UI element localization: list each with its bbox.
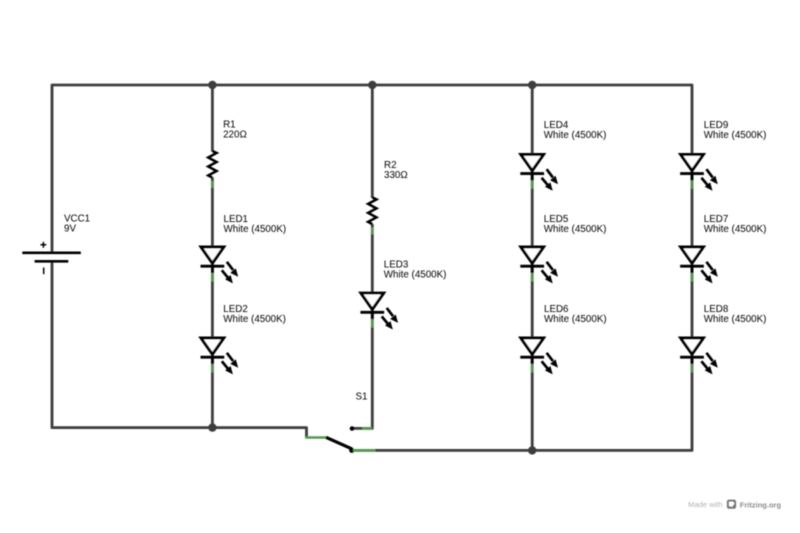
switch S1 throw terminal dot	[350, 426, 355, 431]
logo Fritzing	[727, 500, 736, 509]
LED LED5 White (4500K)	[520, 247, 558, 283]
resistor R2	[368, 197, 376, 234]
svg-text:White (4500K): White (4500K)	[704, 314, 767, 325]
LED LED3 White (4500K)	[360, 293, 398, 329]
switch S1 lever	[326, 437, 352, 449]
switch S1 common terminal dot	[349, 448, 354, 453]
switch S1 left pin (green)	[305, 436, 326, 439]
battery VCC1 9V	[22, 242, 81, 274]
wire branch 1 upper segment (top rail to R1)	[211, 85, 214, 152]
svg-text:White (4500K): White (4500K)	[223, 314, 286, 325]
switch S1 right pin (green)	[353, 449, 375, 452]
wire branch 3 (top rail through LED4 LED5 LED6 to bottom-right rail)	[531, 85, 534, 450]
svg-text:White (4500K): White (4500K)	[704, 130, 767, 141]
node junction top rail / branch 2	[368, 81, 376, 89]
svg-text:White (4500K): White (4500K)	[384, 269, 447, 280]
LED LED2 White (4500K)	[201, 338, 239, 374]
wire branch 2 upper segment (top rail to R2)	[371, 85, 374, 198]
svg-text:220Ω: 220Ω	[223, 129, 247, 140]
svg-text:White (4500K): White (4500K)	[224, 224, 287, 235]
svg-text:White (4500K): White (4500K)	[544, 130, 607, 141]
wire branch 2 lower segment (R2 through LED3 down to switch stub)	[352, 224, 372, 428]
LED LED1 White (4500K)	[201, 247, 239, 283]
switch S1 stub pin (green, under branch 2)	[362, 427, 372, 430]
LED LED6 White (4500K)	[520, 338, 558, 374]
node junction top rail / branch 1	[208, 81, 216, 89]
resistor R1	[208, 151, 216, 188]
LED LED8 White (4500K)	[680, 338, 718, 374]
LED LED4 White (4500K)	[520, 154, 558, 190]
node junction bottom-right rail / branch 3	[528, 446, 536, 454]
svg-text:Fritzing.org: Fritzing.org	[740, 500, 782, 509]
node junction top rail / branch 3	[528, 81, 536, 89]
svg-text:330Ω: 330Ω	[384, 170, 408, 181]
svg-text:White (4500K): White (4500K)	[544, 314, 607, 325]
LED LED7 White (4500K)	[680, 247, 718, 283]
wire top rail + right branch down to bottom-right rail	[52, 85, 692, 450]
svg-text:White (4500K): White (4500K)	[544, 224, 607, 235]
wire left rail below battery + bottom-left rail + step down to switch	[52, 261, 307, 438]
LED LED9 White (4500K)	[680, 154, 718, 190]
svg-text:9V: 9V	[64, 224, 76, 235]
wire branch 1 lower segment (R1 through LED1 LED2 to bottom rail)	[211, 178, 214, 428]
svg-text:S1: S1	[356, 392, 368, 403]
node junction bottom-left rail / branch 1	[208, 423, 216, 431]
svg-text:White (4500K): White (4500K)	[704, 224, 767, 235]
svg-text:Made with: Made with	[688, 500, 723, 509]
